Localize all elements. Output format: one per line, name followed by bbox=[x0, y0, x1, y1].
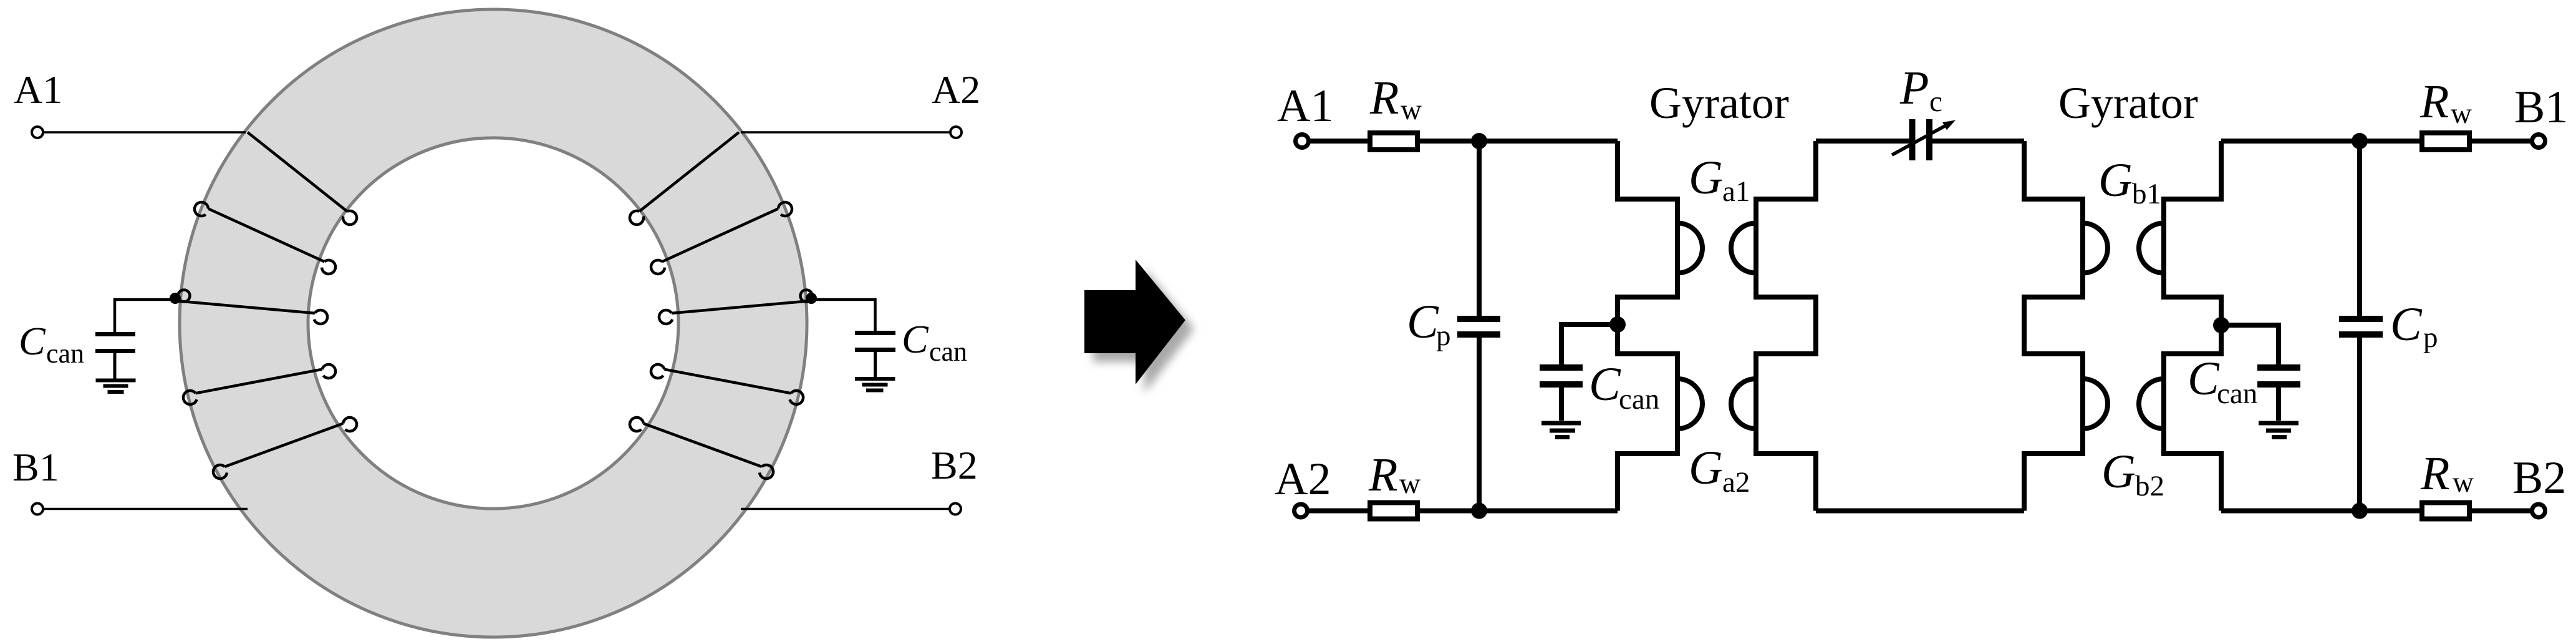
svg-text:A1: A1 bbox=[14, 67, 62, 112]
winding hook outer 3 (left) bbox=[213, 465, 227, 479]
resistor R_w (A2 side) bbox=[1370, 503, 1417, 519]
svg-text:a2: a2 bbox=[1722, 466, 1750, 499]
svg-text:C: C bbox=[1589, 358, 1621, 411]
winding tap loop (right) bbox=[801, 290, 813, 302]
svg-text:C: C bbox=[1407, 296, 1439, 348]
svg-text:Gyrator: Gyrator bbox=[2058, 78, 2198, 128]
winding hook outer 3 (right) bbox=[760, 465, 773, 479]
capacitor C_can (model right) bbox=[2257, 368, 2300, 421]
svg-text:P: P bbox=[1899, 62, 1929, 114]
svg-text:B2: B2 bbox=[931, 443, 978, 487]
svg-text:Gyrator: Gyrator bbox=[1649, 78, 1789, 128]
wire tap to C_can (toroid right) bbox=[811, 300, 876, 331]
svg-text:can: can bbox=[2217, 378, 2257, 410]
svg-text:B1: B1 bbox=[12, 445, 59, 489]
winding hook inner 2 (left) bbox=[322, 260, 335, 274]
wire tap to C_can (model right) bbox=[2221, 325, 2279, 364]
winding turn 4 (right) bbox=[665, 369, 791, 393]
wire P_c to Gb bbox=[1932, 139, 2025, 144]
svg-text:C: C bbox=[2188, 353, 2220, 405]
resistor R_w (A1 side) bbox=[1370, 133, 1417, 150]
svg-text:B1: B1 bbox=[2514, 82, 2568, 133]
gyrator Ga left coil bbox=[1618, 141, 1702, 511]
winding tap turn (right) bbox=[672, 301, 811, 313]
winding tap turn (left) bbox=[175, 301, 315, 313]
svg-text:p: p bbox=[2423, 321, 2438, 354]
terminal B1 (model) bbox=[2532, 135, 2545, 148]
svg-text:w: w bbox=[2453, 466, 2474, 499]
winding hook outer 2 (right) bbox=[790, 391, 804, 404]
wire A2 lead bbox=[741, 131, 949, 134]
svg-text:A2: A2 bbox=[932, 67, 980, 112]
svg-text:can: can bbox=[46, 338, 84, 369]
svg-text:can: can bbox=[1619, 383, 1659, 416]
wire A1 lead bbox=[44, 131, 246, 134]
wire A2 to R_w bbox=[1308, 509, 1370, 514]
winding hook inner 1 (right) bbox=[630, 211, 644, 225]
ground (model right) bbox=[2259, 423, 2299, 437]
terminal A1 (model) bbox=[1296, 135, 1309, 148]
winding hook outer 2 (left) bbox=[183, 391, 197, 404]
svg-text:R: R bbox=[2419, 76, 2449, 128]
winding tap loop (left) bbox=[178, 290, 190, 302]
svg-text:G: G bbox=[1689, 442, 1723, 494]
gyrator Gb right coil bbox=[2139, 141, 2221, 511]
wire B1 to R_w bbox=[2471, 139, 2532, 144]
winding turn 5 (left) bbox=[224, 424, 343, 467]
arrow (toroid to equivalent circuit) bbox=[1084, 260, 1185, 384]
gyrator Ga right coil bbox=[1731, 141, 1816, 511]
svg-text:G: G bbox=[1689, 152, 1723, 204]
resistor R_w (B2 side) bbox=[2422, 503, 2469, 519]
winding hook inner 3 (right) bbox=[659, 310, 672, 324]
wire B2 to R_w bbox=[2471, 509, 2532, 514]
junction node 4 bbox=[2352, 503, 2368, 519]
wire B1 lead bbox=[44, 508, 248, 510]
svg-text:G: G bbox=[2101, 446, 2136, 498]
capacitor P_c (variable) bbox=[1913, 119, 1930, 160]
wire A1 to R_w bbox=[1309, 139, 1370, 144]
winding turn 2 (right) bbox=[662, 208, 778, 261]
winding hook inner 4 (left) bbox=[322, 364, 336, 378]
terminal B1 bbox=[32, 504, 43, 515]
tap junction (right) bbox=[806, 293, 817, 304]
svg-text:can: can bbox=[929, 336, 967, 367]
winding hook outer 1 (right) bbox=[778, 202, 792, 216]
svg-text:A2: A2 bbox=[1275, 454, 1331, 505]
winding turn 4 (left) bbox=[196, 369, 322, 393]
wire Ga to Gb bottom rail bbox=[1816, 509, 2024, 514]
winding hook inner 1 (left) bbox=[343, 211, 357, 225]
wire tap to C_can (toroid left) bbox=[115, 300, 175, 332]
tap junction (left) bbox=[170, 293, 181, 304]
svg-text:R: R bbox=[1368, 449, 1397, 501]
svg-text:a1: a1 bbox=[1722, 175, 1750, 208]
svg-text:B2: B2 bbox=[2512, 452, 2566, 504]
winding hook inner 5 (left) bbox=[343, 417, 357, 431]
wire B2 lead bbox=[741, 508, 948, 510]
svg-text:R: R bbox=[2420, 447, 2449, 500]
winding hook inner 3 (left) bbox=[314, 310, 327, 324]
wire R_w to node 2 bbox=[1420, 509, 1618, 514]
gyrator Gb left coil bbox=[2024, 141, 2108, 511]
P_c adjustment arrow bbox=[1892, 120, 1956, 155]
terminal A1 bbox=[32, 127, 43, 138]
capacitor C_can (toroid right) bbox=[855, 333, 895, 378]
winding turn 5 (right) bbox=[644, 424, 762, 467]
junction node 3 bbox=[2352, 133, 2368, 149]
ground (toroid left) bbox=[96, 381, 136, 393]
wire node 3 to R_w bbox=[2221, 139, 2422, 144]
svg-text:G: G bbox=[2098, 154, 2133, 207]
terminal A2 bbox=[950, 127, 962, 138]
junction node 1 bbox=[1471, 133, 1487, 149]
wire Ga to P_c bbox=[1816, 139, 1909, 144]
ground (toroid right) bbox=[855, 379, 895, 391]
junction node 2 bbox=[1471, 503, 1487, 519]
svg-text:p: p bbox=[1436, 320, 1451, 352]
winding turn 2 (left) bbox=[208, 208, 324, 261]
winding hook outer 1 (left) bbox=[195, 202, 208, 216]
svg-text:R: R bbox=[1369, 72, 1399, 124]
capacitor C_can (toroid left) bbox=[95, 334, 135, 379]
svg-text:w: w bbox=[2451, 97, 2472, 130]
svg-text:C: C bbox=[2390, 298, 2423, 351]
winding A1 entry turn bbox=[248, 132, 347, 212]
wire tap to C_can (model left) bbox=[1561, 324, 1618, 364]
winding hook inner 5 (right) bbox=[630, 417, 644, 431]
tap junction C_can (model left) bbox=[1609, 316, 1626, 333]
tap junction C_can (model right) bbox=[2213, 317, 2229, 333]
capacitor C_p (right) bbox=[2339, 141, 2383, 511]
svg-text:c: c bbox=[1929, 85, 1942, 118]
wire node 4 to R_w bbox=[2221, 509, 2422, 514]
capacitor C_can (model left) bbox=[1540, 368, 1583, 421]
winding hook inner 4 (right) bbox=[651, 364, 665, 378]
terminal A2 (model) bbox=[1295, 504, 1308, 517]
svg-text:A1: A1 bbox=[1277, 80, 1333, 132]
ground (model left) bbox=[1541, 423, 1581, 437]
toroid core bbox=[180, 9, 807, 637]
svg-text:C: C bbox=[902, 317, 929, 361]
terminal B2 bbox=[950, 504, 961, 515]
resistor R_w (B1 side) bbox=[2422, 133, 2469, 150]
svg-text:w: w bbox=[1401, 94, 1422, 126]
terminal B2 (model) bbox=[2532, 504, 2545, 517]
winding hook inner 2 (right) bbox=[651, 260, 665, 274]
svg-text:C: C bbox=[19, 319, 46, 363]
svg-text:b2: b2 bbox=[2135, 470, 2164, 502]
capacitor C_p (left) bbox=[1457, 141, 1500, 511]
wire R_w to node 1 bbox=[1420, 139, 1618, 144]
winding A2 entry turn bbox=[639, 132, 739, 212]
svg-text:b1: b1 bbox=[2132, 178, 2161, 210]
svg-text:w: w bbox=[1399, 467, 1421, 500]
